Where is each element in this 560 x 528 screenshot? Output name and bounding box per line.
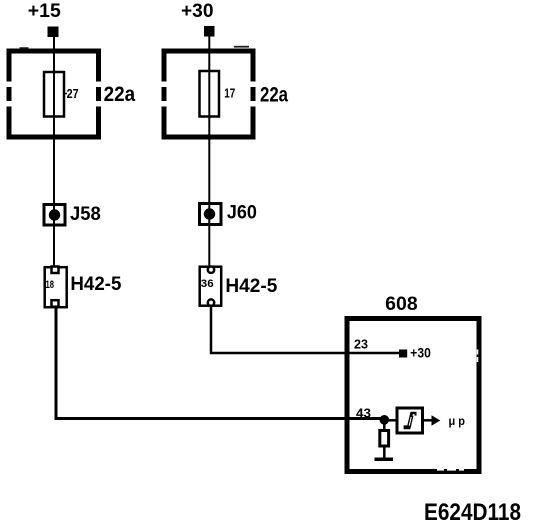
- fuse 17 body: [200, 71, 220, 117]
- svg-text:18: 18: [46, 279, 55, 291]
- connector J58 contact dot: [49, 209, 60, 220]
- svg-text:22a: 22a: [260, 84, 288, 107]
- wire junction down to resistor and ground: [383, 420, 386, 458]
- svg-text:J58: J58: [70, 204, 101, 225]
- fuse 27 body: [44, 72, 64, 117]
- internal +30 terminal square: [399, 350, 407, 358]
- wire H42-5 pin 36 down and right to pin 23 of 608: [211, 306, 399, 353]
- svg-text:E624D118: E624D118: [424, 499, 521, 526]
- scan nick in 608 bottom border: [437, 469, 444, 471]
- wire H42-5 pin 18 down and right to pin 43 of 608: [56, 308, 385, 419]
- pin square top (pin 18): [52, 267, 59, 274]
- terminal square +15: [48, 27, 59, 38]
- svg-text:43: 43: [356, 406, 371, 421]
- fuse pin tick: [63, 93, 67, 95]
- svg-text:+30: +30: [410, 345, 431, 361]
- scan nick in 608 right border: [477, 350, 479, 355]
- pin ring bottom: [208, 299, 214, 305]
- svg-text:36: 36: [201, 278, 214, 290]
- svg-text:608: 608: [385, 294, 418, 315]
- wire +15 terminal down through fuse to J58: [53, 37, 55, 267]
- svg-text:23: 23: [354, 337, 368, 352]
- connector H42-5 body (left): [45, 267, 67, 307]
- svg-text:J60: J60: [227, 202, 257, 223]
- connector J60 contact dot: [204, 208, 215, 219]
- resistor: [380, 431, 389, 447]
- wire junction to trigger input: [384, 419, 397, 422]
- svg-text:22a: 22a: [104, 83, 136, 106]
- svg-text:+30: +30: [181, 1, 214, 22]
- pin ring top (pin 36): [208, 267, 214, 273]
- svg-text:H42-5: H42-5: [225, 276, 277, 297]
- scan mark above right fuse box: [234, 46, 249, 48]
- svg-text:H42-5: H42-5: [70, 274, 121, 295]
- connector J58 box: [44, 205, 65, 226]
- svg-text:27: 27: [67, 86, 79, 101]
- fuse box 22a (left, dashed border): [7, 49, 102, 140]
- fuse box 22a (right, dashed border): [162, 49, 256, 140]
- schmitt trigger box: [397, 408, 423, 433]
- connector H42-5 body (right): [200, 267, 222, 306]
- scan mark above left fuse box: [20, 47, 29, 49]
- svg-text:μ p: μ p: [449, 414, 466, 428]
- wire +30 terminal down through fuse to J60: [208, 36, 210, 267]
- wire trigger output to arrow: [424, 419, 432, 422]
- arrow to microprocessor: [432, 415, 441, 425]
- pin square bottom: [52, 300, 59, 307]
- connector J60 box: [200, 204, 222, 225]
- ground bar: [375, 458, 394, 462]
- svg-text:17: 17: [224, 86, 235, 101]
- hysteresis symbol: [404, 414, 417, 428]
- hysteresis inner white slit: [409, 417, 411, 426]
- ECU box 608: [347, 319, 479, 472]
- terminal square +30: [204, 26, 215, 37]
- junction node dot: [380, 415, 390, 425]
- svg-text:+15: +15: [28, 1, 61, 22]
